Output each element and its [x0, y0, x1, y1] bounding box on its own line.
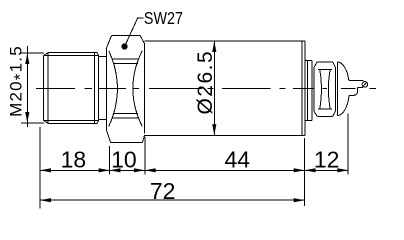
svg-text:Ø26.5: Ø26.5: [194, 50, 217, 115]
svg-text:12: 12: [314, 146, 340, 172]
svg-text:10: 10: [111, 146, 137, 172]
svg-text:72: 72: [150, 178, 176, 204]
svg-text:SW27: SW27: [144, 10, 183, 29]
svg-text:44: 44: [225, 146, 251, 172]
svg-text:18: 18: [61, 146, 87, 172]
